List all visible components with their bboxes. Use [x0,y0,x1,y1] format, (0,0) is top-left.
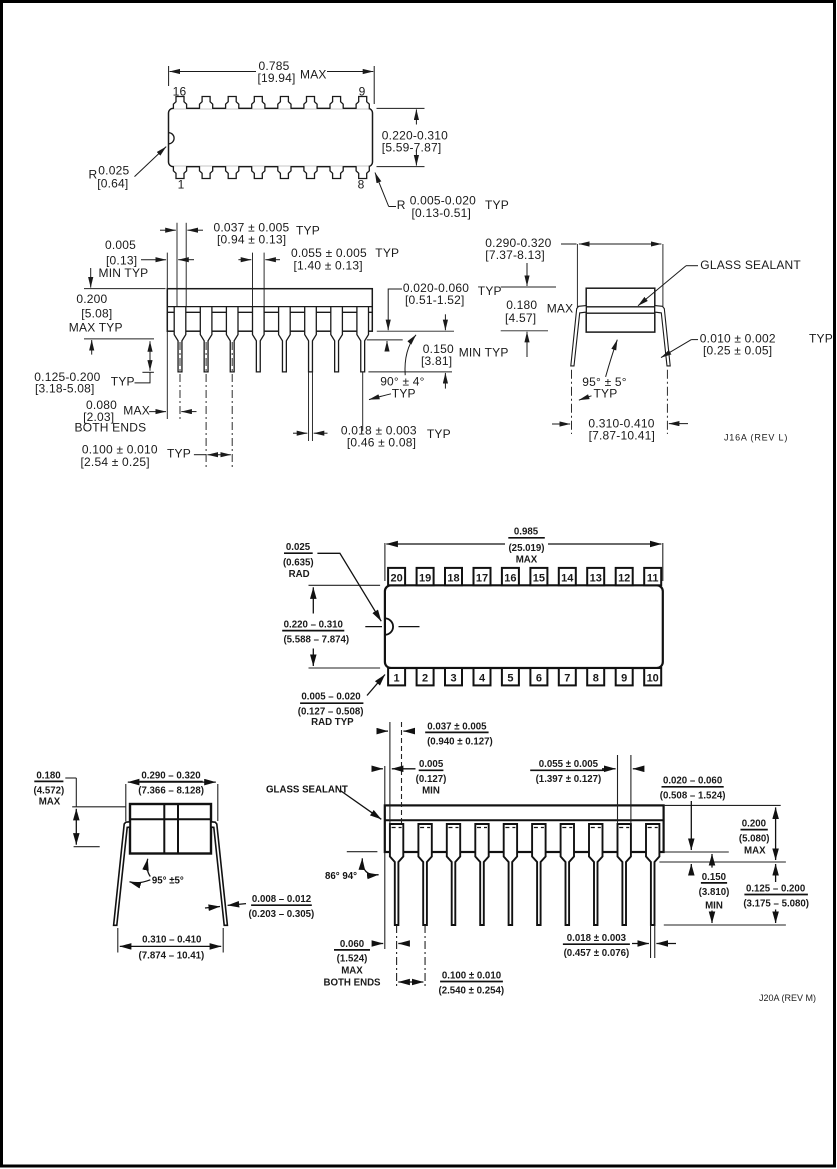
svg-text:MIN TYP: MIN TYP [459,345,509,359]
svg-text:[7.87-10.41]: [7.87-10.41] [589,428,655,442]
svg-text:MAX: MAX [300,67,327,81]
J20A end view body with lid lines [130,804,211,854]
svg-text:GLASS SEALANT: GLASS SEALANT [266,785,348,796]
svg-text:BOTH ENDS: BOTH ENDS [75,421,147,435]
svg-text:TYP: TYP [427,427,451,441]
svg-text:[0.46 ± 0.08]: [0.46 ± 0.08] [347,436,416,450]
dim 0.290-0.320 (7.366-8.128) [138,770,204,796]
dim 0.200 (5.080) MAX (J20A) [739,819,770,857]
svg-text:[0.25 ± 0.05]: [0.25 ± 0.05] [703,343,772,357]
svg-text:J20A (REV M): J20A (REV M) [759,993,816,1003]
J16A end view body [586,288,655,332]
svg-text:5: 5 [507,673,513,685]
dim 0.005 [0.13] MIN TYP [141,259,194,261]
svg-text:0.060: 0.060 [340,939,364,950]
svg-text:TYP: TYP [594,387,618,401]
label 0.005-0.020 (0.127-0.508) RAD TYP with leader [298,692,364,729]
svg-text:[5.08]: [5.08] [81,307,112,321]
svg-text:0.008 – 0.012: 0.008 – 0.012 [252,894,311,905]
J20A side view pins [390,824,660,925]
J16A side view pins [174,307,368,372]
svg-text:TYP: TYP [111,375,135,389]
svg-text:0.310 – 0.410: 0.310 – 0.410 [142,934,201,945]
svg-text:0.005 – 0.020: 0.005 – 0.020 [301,692,360,703]
J16A side view center/extension lines below [84,289,454,467]
svg-text:MAX: MAX [341,965,363,976]
J20A index notch [385,618,393,634]
svg-text:(0.635): (0.635) [283,557,314,568]
dim 0.100 +/-0.010 TYP [194,454,231,456]
J16A top view pins (bottom row 1..8) [173,166,369,178]
svg-text:7: 7 [564,673,570,685]
dim 0.180 [4.57] MAX [501,287,556,331]
label 0.025 (0.635) RAD with leader to notch [283,542,314,580]
J16A side view thin extension lines above body [167,223,264,307]
dim 0.020-0.060 (0.508-1.524) (J20A) [660,776,726,802]
dim 0.100 +/-0.010 (J20A) [438,970,504,996]
svg-text:(2.540 ± 0.254): (2.540 ± 0.254) [438,985,504,996]
svg-text:J16A (REV L): J16A (REV L) [724,432,788,442]
dim 0.055 +/-0.005 [238,259,280,261]
svg-text:15: 15 [533,573,545,585]
J20A notch center line dashes [365,626,419,628]
svg-text:0.018 ± 0.003: 0.018 ± 0.003 [567,933,627,944]
svg-text:(0.940 ± 0.127): (0.940 ± 0.127) [427,736,493,747]
svg-text:MIN: MIN [705,900,723,911]
svg-text:(1.524): (1.524) [337,953,368,964]
svg-text:13: 13 [590,573,602,585]
svg-text:0.025: 0.025 [286,542,311,553]
svg-text:0.037 ± 0.005: 0.037 ± 0.005 [427,721,487,732]
dim 0.008-0.012 (0.203-0.305) [249,894,315,920]
svg-text:[0.51-1.52]: [0.51-1.52] [405,293,465,307]
svg-text:MAX: MAX [516,554,538,565]
svg-text:R: R [397,198,406,212]
svg-text:17: 17 [476,573,488,585]
svg-text:19: 19 [419,573,431,585]
svg-text:0.150: 0.150 [702,872,726,883]
dim 0.005 (0.127) MIN (J20A) [416,759,447,796]
svg-text:(1.397 ± 0.127): (1.397 ± 0.127) [536,774,602,785]
svg-text:14: 14 [561,573,574,585]
svg-text:MAX TYP: MAX TYP [69,320,123,334]
svg-text:0.200: 0.200 [76,292,107,306]
svg-text:2: 2 [422,673,428,685]
svg-text:8: 8 [358,178,365,192]
J20A side view extension lines [385,722,786,986]
J20A side view package body [385,805,664,852]
J16A end view leg center lines [572,370,668,434]
svg-text:20: 20 [390,573,402,585]
svg-text:[0.64]: [0.64] [97,176,128,190]
dim 0.290-0.320 [7.37-8.13] [561,244,663,307]
dim 0.037 +/-0.005 (J20A) [427,721,493,747]
J16A index notch [169,133,175,144]
svg-text:(25.019): (25.019) [508,543,544,554]
J16A top view package body [169,108,373,166]
svg-text:(5.588 – 7.874): (5.588 – 7.874) [283,634,349,645]
svg-text:MIN TYP: MIN TYP [99,266,149,280]
svg-text:TYP: TYP [485,198,509,212]
dim 0.220-0.310 [5.59-7.87] [377,108,425,166]
svg-text:0.055 ± 0.005: 0.055 ± 0.005 [539,759,599,770]
svg-text:MIN: MIN [422,785,440,796]
dim 0.020-0.060 [0.51-1.52] TYP [387,289,402,349]
svg-text:TYP: TYP [375,246,399,260]
svg-text:BOTH ENDS: BOTH ENDS [323,977,381,988]
svg-text:RAD: RAD [289,569,310,580]
dim 0.785 [19.94] MAX [169,66,375,104]
dim 0.060 (1.524) MAX BOTH ENDS (J20A) [323,939,381,989]
svg-text:(7.366 – 8.128): (7.366 – 8.128) [138,785,204,796]
svg-text:[19.94]: [19.94] [257,71,295,85]
svg-text:RAD TYP: RAD TYP [311,717,354,728]
svg-text:0.100 ± 0.010: 0.100 ± 0.010 [442,970,501,981]
svg-text:16: 16 [173,85,187,99]
svg-text:8: 8 [593,673,599,685]
svg-text:0.180: 0.180 [36,770,60,781]
svg-text:[4.57]: [4.57] [505,311,536,325]
svg-text:TYP: TYP [296,223,320,237]
dim 0.150 (3.810) MIN (J20A) [699,872,730,912]
dim 0.150 [3.81] MIN TYP [444,314,446,388]
svg-text:MAX: MAX [123,404,150,418]
svg-text:(5.080): (5.080) [739,834,770,845]
dim 0.985 (25.019) MAX [385,543,663,581]
svg-text:0.005: 0.005 [419,759,444,770]
dim 0.310-0.410 (7.874-10.41) [118,928,223,953]
svg-text:TYP: TYP [478,284,502,298]
svg-text:R: R [89,167,98,181]
angle 90 deg +/-4 TYP with leaders [369,335,416,400]
svg-text:(0.203 – 0.305): (0.203 – 0.305) [249,909,315,920]
svg-text:0.020 – 0.060: 0.020 – 0.060 [663,776,722,787]
dim 0.200 [5.08] MAX TYP [91,268,92,355]
angle 95 deg +/-5 TYP with leaders [579,340,617,400]
dim 0.180 (4.572) MAX [34,770,65,807]
J20A top view pin boxes with numbers [388,568,661,686]
svg-text:(0.127): (0.127) [416,774,447,785]
svg-text:9: 9 [359,85,366,99]
dim 0.125-0.200 (3.175-5.080) (J20A) [743,884,809,910]
dim 0.018 +/-0.003 TYP [293,432,328,434]
dim 0.018 +/-0.003 (J20A) [564,933,630,959]
svg-text:(4.572): (4.572) [34,785,65,796]
svg-text:(0.457 ± 0.076): (0.457 ± 0.076) [564,948,630,959]
J16A pin number labels [173,85,366,192]
dim 0.310-0.410 [7.87-10.41] [552,423,688,425]
svg-text:[1.40 ± 0.13]: [1.40 ± 0.13] [294,258,363,272]
svg-text:(0.127 – 0.508): (0.127 – 0.508) [298,707,364,718]
dim 0.055 +/-0.005 (J20A) [536,759,602,785]
J16A top view pins (top row 16..9) [173,97,369,109]
svg-text:12: 12 [618,573,630,585]
svg-text:4: 4 [479,673,486,685]
svg-text:10: 10 [647,673,659,685]
svg-text:0.200: 0.200 [742,819,766,830]
svg-text:0.005: 0.005 [105,238,136,252]
svg-text:TYP: TYP [392,386,416,400]
svg-text:95° ±5°: 95° ±5° [152,876,184,887]
J16A end view legs [571,306,670,366]
svg-text:[0.94 ± 0.13]: [0.94 ± 0.13] [217,232,286,246]
J20A side view pin braze dashes [392,827,658,829]
svg-text:[5.59-7.87]: [5.59-7.87] [382,140,442,154]
dim 0.080 [2.03] MAX BOTH ENDS [149,411,196,413]
svg-text:(3.810): (3.810) [699,887,730,898]
svg-text:3: 3 [450,673,456,685]
svg-text:[3.18-5.08]: [3.18-5.08] [35,382,95,396]
svg-text:0.025: 0.025 [98,163,129,177]
svg-text:MAX: MAX [744,846,766,857]
svg-text:9: 9 [621,673,627,685]
svg-text:1: 1 [394,673,400,685]
J16A side view package body [167,289,372,332]
svg-text:0.220 – 0.310: 0.220 – 0.310 [284,619,343,630]
svg-text:(0.508 – 1.524): (0.508 – 1.524) [660,790,726,801]
svg-text:[7.37-8.13]: [7.37-8.13] [485,248,545,262]
svg-text:(7.874 – 10.41): (7.874 – 10.41) [139,951,205,962]
svg-text:0.125 – 0.200: 0.125 – 0.200 [746,884,805,895]
J20A top view package body [385,585,663,668]
svg-text:[2.54 ± 0.25]: [2.54 ± 0.25] [81,455,150,469]
svg-text:6: 6 [536,673,542,685]
svg-text:86° 94°: 86° 94° [325,871,357,882]
dim 0.037 +/-0.005 [160,229,203,231]
svg-text:0.985: 0.985 [514,526,539,537]
svg-text:[0.13-0.51]: [0.13-0.51] [412,206,472,220]
svg-text:18: 18 [447,573,459,585]
svg-text:0.290 – 0.320: 0.290 – 0.320 [141,770,200,781]
svg-text:GLASS SEALANT: GLASS SEALANT [700,258,801,272]
svg-text:[3.81]: [3.81] [421,354,452,368]
svg-text:MAX: MAX [39,797,61,808]
dim 0.125-0.200 [3.18-5.08] TYP [135,341,154,383]
svg-text:11: 11 [647,573,659,585]
svg-text:TYP: TYP [809,331,833,345]
svg-text:1: 1 [178,178,185,192]
svg-text:16: 16 [504,573,516,585]
svg-text:(3.175 – 5.080): (3.175 – 5.080) [743,899,809,910]
svg-text:MAX: MAX [547,302,574,316]
dim 0.220-0.310 (5.588-7.874) [309,585,381,668]
J20A end view legs [114,822,228,926]
svg-text:TYP: TYP [167,446,191,460]
svg-text:0.180: 0.180 [506,298,537,312]
